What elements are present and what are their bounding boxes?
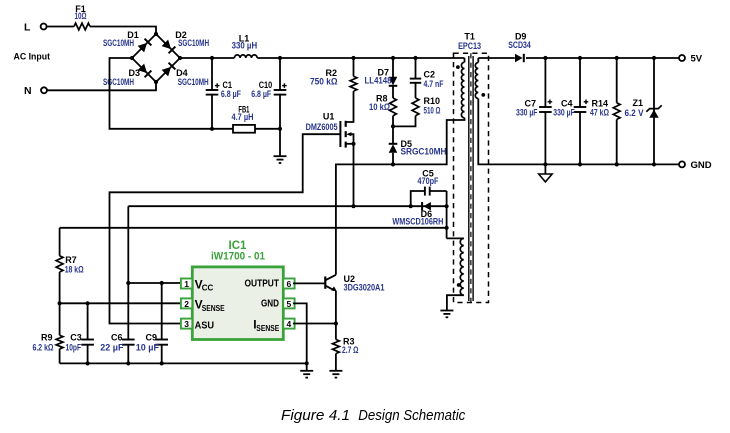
wire 5V rail	[526, 57, 679, 59]
node bridge right	[178, 56, 182, 60]
junction VSENSE at R7	[58, 301, 62, 305]
wire secondary return to GND rail	[478, 99, 679, 165]
diode D1 SGC10MH	[103, 30, 151, 53]
wire U2 emitter to R3	[335, 291, 337, 340]
svg-text:3: 3	[184, 319, 189, 329]
svg-text:Design Schematic: Design Schematic	[358, 408, 466, 424]
junction Z1 top	[652, 56, 656, 60]
wire R10 to clamp junction	[393, 116, 416, 127]
svg-text:SGC10MH: SGC10MH	[178, 77, 209, 87]
diode D3 SGC10MH	[103, 63, 151, 86]
junction U1 source on VCC rail	[351, 204, 355, 208]
svg-text:330 µF: 330 µF	[516, 108, 538, 118]
wire FB1 to C10 bottom	[255, 128, 280, 130]
IC1 pin 6 box	[283, 279, 294, 290]
junction C1 top	[210, 56, 214, 60]
junction C7 bottom	[543, 162, 547, 166]
diode D9 SCD34	[508, 32, 531, 63]
zener diode Z1 6.2 V	[625, 58, 662, 164]
svg-text:10pF: 10pF	[66, 343, 82, 353]
wire GND stub	[306, 363, 308, 370]
svg-text:510 Ω: 510 Ω	[424, 106, 441, 116]
junction C9 bottom	[160, 361, 164, 365]
svg-text:U1: U1	[323, 112, 335, 122]
svg-text:C9: C9	[145, 333, 157, 343]
svg-text:SCD34: SCD34	[508, 40, 531, 50]
capacitor C5 470pF	[411, 168, 447, 206]
svg-text:R9: R9	[41, 333, 53, 343]
svg-text:GND: GND	[261, 298, 279, 310]
svg-text:330 µH: 330 µH	[232, 40, 258, 50]
wire U1 gate to ASU net	[110, 134, 341, 323]
svg-text:EPC13: EPC13	[458, 41, 481, 51]
svg-text:4.7 µH: 4.7 µH	[232, 112, 254, 122]
junction C10 top	[278, 56, 282, 60]
wire F1 to bridge top node	[90, 27, 156, 35]
resistor R10 510 Ohm	[412, 96, 440, 116]
svg-text:SGC10MH: SGC10MH	[178, 38, 209, 48]
IC1 pin 5 box	[283, 298, 294, 309]
svg-text:SRGC10MH: SRGC10MH	[401, 147, 447, 157]
svg-text:C2: C2	[424, 69, 436, 79]
junction C3 bottom	[86, 361, 90, 365]
svg-text:750 kΩ: 750 kΩ	[310, 76, 338, 86]
wire D5 to switch node	[392, 153, 394, 165]
IC1 pin 1 box	[181, 279, 192, 290]
junction Z1 bottom	[652, 162, 656, 166]
terminal N (AC neutral input)	[24, 85, 47, 97]
svg-text:22 µF: 22 µF	[100, 343, 124, 353]
wire VCC rail	[128, 205, 446, 207]
node bridge bottom	[154, 80, 158, 84]
ground output (open triangle)	[539, 164, 552, 182]
svg-text:18 kΩ: 18 kΩ	[65, 265, 84, 275]
diode D6 WMSCD106RH	[392, 202, 443, 226]
ground R3	[329, 371, 342, 378]
capacitor C4 330 uF	[553, 58, 588, 164]
svg-text:470pF: 470pF	[418, 176, 439, 186]
node bridge left	[130, 56, 134, 60]
wire top rail bridge to L1	[180, 57, 234, 59]
wire secondary top to D9	[478, 57, 515, 59]
svg-text:3DG3020A1: 3DG3020A1	[344, 282, 385, 292]
transformer T1 secondary winding	[475, 58, 485, 99]
terminal L (AC line input)	[24, 22, 47, 34]
svg-text:R10: R10	[424, 96, 441, 106]
svg-text:GND: GND	[691, 160, 712, 171]
junction C1 bottom	[210, 127, 214, 131]
svg-text:6.8 µF: 6.8 µF	[221, 89, 241, 99]
svg-text:C6: C6	[111, 333, 123, 343]
svg-text:2.7 Ω: 2.7 Ω	[342, 345, 359, 355]
junction aux riser at ASU wire	[445, 226, 449, 230]
wire aux winding riser	[446, 191, 448, 238]
wire pin 5 to IC ground	[293, 303, 307, 363]
capacitor C2 4.7 nF	[410, 58, 444, 98]
inductor L1 330 uH	[232, 33, 258, 58]
junction ground rail at GND pin	[305, 361, 309, 365]
svg-text:N: N	[24, 85, 32, 97]
wire IC ground rail	[60, 362, 307, 364]
transistor U1 DMZ6005 depletion MOSFET	[306, 112, 354, 148]
capacitor C1 6.8 uF	[206, 58, 242, 129]
wire L terminal to F1	[47, 26, 74, 28]
wire clamp junction to D5	[392, 126, 394, 143]
transistor U2 3DG3020A1 NPN	[325, 274, 384, 293]
wire VSENSE node to pin 2	[60, 302, 181, 304]
svg-text:SENSE: SENSE	[202, 304, 226, 313]
wire aux riser to aux winding top	[447, 237, 464, 239]
resistor R7 18 kOhm	[56, 255, 83, 275]
resistor R8 10 kOhm	[369, 93, 396, 115]
junction C10 bottom	[278, 127, 282, 131]
svg-text:CC: CC	[202, 284, 214, 293]
transformer T1 EPC13 dashed box	[454, 32, 489, 303]
svg-text:1: 1	[184, 279, 189, 289]
svg-text:6.8 µF: 6.8 µF	[251, 89, 271, 99]
ground auxiliary winding	[440, 311, 453, 318]
transformer T1 core	[469, 56, 473, 301]
diode D7 LL4148	[365, 67, 398, 86]
junction R14 bottom	[615, 162, 619, 166]
wire ASU net to aux riser	[60, 227, 447, 229]
capacitor C7 330 uF	[516, 58, 552, 164]
diode D2 SGC10MH	[161, 30, 209, 53]
transformer T1 auxiliary winding	[457, 238, 464, 295]
junction C6 bottom	[126, 361, 130, 365]
wire VCC rail down to VCC node	[127, 206, 129, 283]
capacitor C10 6.8 uF	[251, 58, 287, 129]
capacitor C6 22 uF	[100, 283, 134, 363]
junction U1 source-body	[351, 142, 355, 146]
resistor R3 2.7 Ohm	[333, 337, 359, 356]
wire pin 4 to ISENSE node	[293, 323, 336, 325]
IC1 pin 3 box	[181, 319, 192, 330]
svg-text:R7: R7	[65, 255, 77, 265]
junction R2 top	[351, 56, 355, 60]
wire N to bridge bottom node	[47, 82, 156, 90]
resistor R14 47 kOhm	[590, 58, 620, 164]
IC1 pin label VSENSE	[195, 298, 226, 313]
svg-text:Z1: Z1	[632, 98, 643, 108]
svg-text:SENSE: SENSE	[256, 324, 280, 333]
junction D6 anode side	[445, 204, 449, 208]
svg-text:L: L	[24, 22, 31, 34]
wire C10 bottom to primary ground	[279, 129, 281, 156]
svg-text:DMZ6005: DMZ6005	[306, 122, 338, 132]
ground IC rail	[300, 371, 313, 378]
junction C2 top	[413, 56, 417, 60]
wire top rail L1 to transformer	[257, 57, 464, 59]
IC1 pin label VCC	[195, 277, 214, 292]
resistor R2 750 kOhm	[310, 68, 357, 91]
ferrite bead FB1 4.7 uH	[232, 104, 256, 132]
svg-text:SGC10MH: SGC10MH	[103, 77, 134, 87]
wire rail to D7	[392, 58, 394, 77]
ground primary side	[274, 156, 287, 163]
svg-text:iW1700 - 01: iW1700 - 01	[211, 251, 265, 263]
wire bridge left node to bottom rail	[110, 58, 234, 129]
wire VCC node to pin 1	[128, 282, 181, 284]
wire ASU net corner to R7	[59, 228, 61, 256]
IC1 pin label OUTPUT	[245, 277, 280, 289]
svg-text:5: 5	[287, 299, 292, 309]
IC1 pin 2 box	[181, 298, 192, 309]
svg-text:10Ω: 10Ω	[75, 11, 87, 21]
transformer T1 primary winding	[456, 58, 465, 118]
node bridge top	[154, 32, 158, 36]
wire R7 to VSENSE node	[59, 272, 61, 303]
wire D7 to R8	[392, 86, 394, 98]
junction C4 bottom	[578, 162, 582, 166]
svg-text:LL4148: LL4148	[365, 75, 392, 85]
svg-text:330 µF: 330 µF	[553, 108, 575, 118]
capacitor C3 10pF	[66, 303, 94, 363]
junction C9 top	[160, 281, 164, 285]
svg-text:OUTPUT: OUTPUT	[245, 277, 280, 289]
junction D7 top	[391, 56, 395, 60]
junction ISENSE at R3	[334, 321, 338, 325]
svg-text:AC Input: AC Input	[14, 52, 51, 63]
caption Figure 4.1 Design Schematic	[281, 407, 466, 424]
svg-text:Figure 4.1: Figure 4.1	[281, 407, 350, 424]
capacitor C9 10 uF	[136, 283, 168, 363]
IC1 pin label ISENSE	[253, 318, 280, 333]
svg-text:10 µF: 10 µF	[136, 343, 160, 353]
junction VCC at C6	[126, 281, 130, 285]
svg-text:10 kΩ: 10 kΩ	[369, 102, 390, 112]
svg-text:WMSCD106RH: WMSCD106RH	[392, 216, 443, 226]
op-amp U-boxes: IC1 iW1700-01 controller	[192, 240, 283, 340]
wire aux winding bottom to ground	[447, 295, 464, 310]
junction C4 top	[578, 56, 582, 60]
wire rail to R2	[353, 58, 355, 76]
wire U1 source to VCC rail	[353, 144, 355, 206]
resistor R9 6.2 kOhm	[33, 303, 64, 363]
svg-text:6.2 kΩ: 6.2 kΩ	[33, 343, 54, 353]
wire bridge diamond	[132, 34, 180, 82]
wire R8 to clamp junction	[392, 116, 394, 127]
junction R14 top	[615, 56, 619, 60]
terminal 5V output	[679, 54, 703, 65]
wire R3 to ground	[335, 354, 337, 371]
label AC Input	[14, 52, 51, 63]
svg-text:C3: C3	[70, 333, 82, 343]
svg-text:2: 2	[184, 299, 189, 309]
IC1 pin label GND	[261, 298, 279, 310]
wire R2 to U1 drain	[346, 91, 354, 122]
IC1 pin 4 box	[283, 319, 294, 330]
terminal GND output	[679, 160, 712, 171]
svg-text:4.7 nF: 4.7 nF	[424, 79, 444, 89]
svg-text:ASU: ASU	[195, 320, 215, 332]
svg-text:6: 6	[287, 279, 292, 289]
junction D6 cathode side	[409, 204, 413, 208]
diode D4 SGC10MH	[161, 63, 208, 87]
IC1 pin label ASU	[195, 320, 215, 332]
svg-text:SGC10MH: SGC10MH	[103, 38, 134, 48]
svg-text:T1: T1	[464, 32, 475, 42]
svg-text:47 kΩ: 47 kΩ	[590, 108, 609, 118]
svg-text:6.2 V: 6.2 V	[625, 108, 644, 118]
junction C3 top	[86, 301, 90, 305]
junction C7 top	[543, 56, 547, 60]
wire switch node primary-bottom to U2 collector	[336, 118, 465, 275]
junction clamp R8-R10	[391, 124, 395, 128]
junction D5 anode on switch node	[391, 162, 395, 166]
wire pin 6 to U2 base	[293, 282, 325, 284]
diode D5 SRGC10MH	[389, 139, 447, 157]
svg-text:4: 4	[287, 319, 292, 329]
fuse F1 10 ohm	[74, 4, 90, 30]
svg-text:5V: 5V	[691, 54, 703, 65]
